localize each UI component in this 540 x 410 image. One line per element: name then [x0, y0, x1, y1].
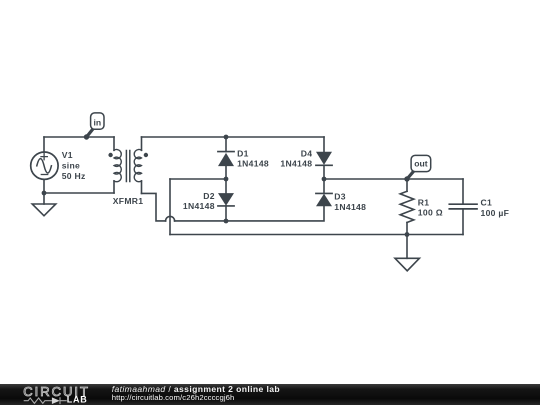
logo diode symbol	[52, 397, 60, 404]
svg-text:http://circuitlab.com/c26h2ccc: http://circuitlab.com/c26h2ccccgj6h	[112, 393, 235, 402]
diode D3 cathode bar	[316, 192, 332, 194]
wire vertical left drop to bottom rail	[169, 179, 171, 235]
svg-text:50 Hz: 50 Hz	[62, 171, 86, 181]
diode D1 triangle	[218, 153, 234, 166]
inductor XFMR1 primary coil	[114, 149, 121, 181]
wire bottom-left rail V1 to XFMR1 primary	[44, 192, 114, 194]
diode D1 cathode bar	[218, 151, 234, 153]
wire D4 bottom stub	[323, 165, 325, 179]
XFMR1 secondary phase dot	[144, 153, 148, 157]
svg-text:R1: R1	[418, 197, 430, 207]
wire C1 bottom stub	[462, 209, 464, 235]
diode D2 triangle	[218, 193, 234, 206]
diode D2 cathode bar	[218, 205, 234, 207]
wire C1 top stub	[462, 179, 464, 204]
svg-text:1N4148: 1N4148	[237, 159, 269, 169]
wire D3 top stub	[323, 179, 325, 193]
wire D1 top stub	[225, 137, 227, 152]
svg-text:C1: C1	[481, 198, 493, 208]
svg-text:D2: D2	[203, 191, 215, 201]
wire V1 top stub	[43, 137, 45, 152]
svg-text:V1: V1	[62, 150, 73, 160]
svg-text:1N4148: 1N4148	[280, 159, 312, 169]
svg-text:in: in	[93, 117, 101, 127]
wire D4 top stub	[323, 137, 325, 152]
diode D3 triangle	[316, 194, 332, 207]
wire secondary bottom jog	[142, 193, 166, 221]
svg-text:LAB: LAB	[67, 395, 88, 405]
diode D4 triangle	[316, 152, 332, 165]
junction dot V1 ground node	[42, 191, 47, 196]
svg-text:100 µF: 100 µF	[481, 208, 510, 218]
wire D2 bottom stub	[225, 206, 227, 221]
voltage source V1 circle	[31, 152, 58, 179]
wire D1 bottom stub	[225, 166, 227, 179]
net flag out tail	[407, 171, 414, 179]
V1 plus sign	[41, 154, 47, 160]
wire bottom rail	[170, 234, 463, 236]
junction dot R1 bottom ground	[405, 232, 410, 237]
V1 minus sign	[41, 174, 47, 176]
net flag out box	[411, 155, 431, 171]
junction dot D2 anode rail	[224, 219, 229, 224]
svg-text:out: out	[414, 158, 427, 168]
capacitor C1 plates	[449, 204, 477, 209]
wire top rail XFMR1 to D4	[142, 136, 325, 138]
net flag in tail	[87, 129, 94, 137]
wire XFMR1 primary bottom stub	[113, 181, 115, 193]
diode D4 cathode bar	[316, 164, 332, 166]
junction dot output rail D3-D4	[322, 177, 327, 182]
ground GND1 triangle	[32, 204, 56, 216]
wire R1 bottom stub	[406, 223, 408, 235]
inductor XFMR1 secondary coil	[134, 149, 141, 181]
wire top-left rail V1 to XFMR1 primary	[44, 136, 114, 138]
wire anode rail to D2 and D3	[175, 206, 324, 221]
svg-text:XFMR1: XFMR1	[113, 196, 144, 206]
wire D2 top stub	[225, 179, 227, 193]
wire V1 bottom stub	[43, 179, 45, 193]
junction dot D1-D2 node	[224, 177, 229, 182]
ground GND2 triangle	[395, 258, 419, 271]
svg-text:D4: D4	[301, 149, 313, 159]
XFMR1 primary phase dot	[108, 153, 112, 157]
junction dot node in	[84, 134, 89, 139]
V1 sine waveform	[37, 159, 52, 173]
net flag in box	[91, 113, 104, 129]
junction dot top rail D1	[224, 135, 229, 140]
svg-text:sine: sine	[62, 161, 80, 171]
svg-text:1N4148: 1N4148	[183, 201, 215, 211]
ground GND2 stub	[406, 235, 408, 259]
svg-text:D1: D1	[237, 149, 249, 159]
junction dot out flag R1	[404, 176, 409, 181]
wire R1 top stub	[406, 179, 408, 191]
ground GND1 stub	[43, 193, 45, 204]
wire output rail to C1	[324, 178, 463, 180]
wire hop over vertical	[166, 216, 175, 221]
resistor R1 zigzag	[400, 191, 414, 222]
wire XFMR1 secondary bottom stub	[141, 181, 143, 194]
logo resistor squiggle	[24, 398, 52, 403]
wire XFMR1 secondary top stub	[141, 137, 143, 150]
svg-text:D3: D3	[334, 191, 346, 201]
footer watermark bar	[0, 384, 540, 405]
wire mid-left rail	[170, 178, 226, 180]
wire XFMR1 primary top stub	[113, 137, 115, 150]
svg-text:100 Ω: 100 Ω	[418, 208, 443, 218]
XFMR1 core lines	[126, 151, 129, 182]
svg-text:1N4148: 1N4148	[334, 202, 366, 212]
